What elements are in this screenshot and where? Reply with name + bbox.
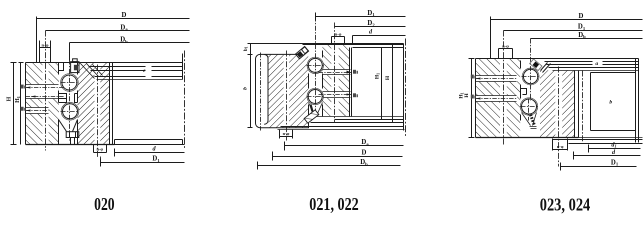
dim Db line bbox=[70, 43, 190, 61]
n-phi box bottom bbox=[280, 130, 293, 139]
loading plug top bbox=[71, 62, 79, 73]
inner bolt centreline bbox=[503, 31, 505, 145]
dim D1 bottom bbox=[561, 163, 637, 171]
raceway white gap bbox=[59, 63, 78, 144]
dim Da line bbox=[46, 30, 190, 32]
bore groove white bands bbox=[26, 85, 59, 99]
inner ring bore double edge bbox=[350, 48, 352, 117]
lower closing wedge bbox=[59, 120, 78, 132]
dim d top bbox=[353, 36, 406, 44]
inner ring outline bbox=[26, 63, 59, 145]
bottom bands right bbox=[579, 137, 643, 139]
H dim verticals right bbox=[382, 45, 393, 123]
bore arrow row 1 bbox=[21, 85, 26, 89]
tilted plug top bbox=[530, 59, 542, 71]
svg-text:b: b bbox=[609, 100, 612, 106]
outer bolt centreline bbox=[558, 67, 560, 167]
dim D1 line bbox=[101, 159, 185, 167]
lower ball bbox=[522, 99, 537, 114]
dim D line bbox=[37, 17, 190, 63]
outer ring raceway edge bbox=[308, 74, 310, 128]
dim D1 top bbox=[316, 13, 406, 21]
H1 dim line bbox=[19, 63, 24, 145]
outer bolt centreline bbox=[286, 51, 288, 141]
n-phi box top bbox=[40, 41, 51, 63]
svg-text:H: H bbox=[464, 93, 470, 98]
svg-text:n-φ: n-φ bbox=[557, 144, 564, 149]
lower ball bbox=[63, 104, 78, 119]
outer ring relief centreline bbox=[260, 53, 262, 131]
tilted plug top left bbox=[295, 46, 308, 58]
dim D2 top bbox=[335, 26, 406, 28]
dim Da bottom bbox=[285, 142, 404, 151]
n-phi box bottom bbox=[553, 139, 568, 151]
svg-text:021, 022: 021, 022 bbox=[309, 194, 359, 214]
top edge and band bbox=[476, 58, 639, 60]
outer ring bolt hole white band bbox=[555, 70, 562, 137]
outer ring relief contour bbox=[264, 55, 268, 125]
svg-text:n-φ: n-φ bbox=[335, 32, 342, 37]
svg-text:H1: H1 bbox=[15, 96, 21, 103]
ball column centreline bbox=[69, 60, 71, 141]
ball crosses bbox=[307, 66, 324, 97]
bore arrow row 2 bbox=[26, 96, 65, 98]
outer ring bolt hole white band bbox=[284, 54, 290, 127]
n-phi box top bbox=[499, 49, 513, 59]
svg-text:H: H bbox=[7, 96, 13, 101]
outer ring hatched block bbox=[268, 54, 308, 127]
outer ring edges bbox=[575, 71, 579, 138]
left dim vertical bbox=[248, 44, 303, 128]
inner bolt centreline bbox=[334, 23, 336, 123]
outer ring edge white gap bbox=[574, 70, 578, 137]
upper ball bbox=[62, 75, 77, 90]
bore arrow row 3 bbox=[21, 107, 26, 111]
bottom band lines bbox=[335, 119, 404, 121]
body top edge bbox=[26, 62, 183, 64]
outer bolt centreline bbox=[98, 65, 101, 163]
svg-text:H: H bbox=[385, 75, 391, 80]
inner ring flange lower line bbox=[353, 47, 404, 49]
upper ball bbox=[523, 69, 537, 83]
pitch centreline bbox=[582, 71, 584, 143]
axis centreline bbox=[405, 39, 407, 137]
spacer between rows bbox=[59, 94, 67, 103]
bore groove white bands bbox=[476, 76, 517, 82]
bore groove white bands bbox=[323, 69, 351, 75]
body bottom edge bbox=[476, 137, 579, 139]
H dim line bbox=[469, 59, 475, 138]
dim D bottom bbox=[273, 152, 403, 161]
dim Db bottom bbox=[258, 162, 401, 170]
outer ring bolt hole white band bbox=[95, 63, 101, 145]
right edge double vertical bbox=[636, 59, 639, 143]
bottom band bbox=[115, 140, 183, 145]
inner ring flange top thick edge bbox=[303, 44, 404, 45]
svg-text:n-φ: n-φ bbox=[502, 43, 509, 48]
svg-text:n-φ: n-φ bbox=[283, 131, 290, 136]
svg-text:D: D bbox=[579, 13, 584, 20]
svg-text:b1: b1 bbox=[244, 46, 249, 51]
n-phi box top bbox=[332, 37, 345, 44]
groove edges bbox=[323, 70, 351, 98]
svg-text:D: D bbox=[362, 149, 367, 156]
inner ring bottom edge bbox=[311, 116, 404, 118]
raceway bites bbox=[307, 57, 323, 73]
dim d bottom bbox=[574, 152, 641, 160]
lower ball bbox=[308, 90, 322, 104]
n-phi box bottom bbox=[94, 145, 107, 153]
inner ring hatched block bbox=[25, 63, 59, 145]
body bottom edge bbox=[26, 144, 115, 146]
ball column centreline bbox=[315, 17, 317, 113]
loading plug bottom bbox=[66, 132, 79, 138]
H dim line bbox=[11, 63, 17, 145]
band right edge bbox=[182, 54, 184, 80]
svg-text:020: 020 bbox=[94, 194, 115, 214]
bore arrow row 1 bbox=[471, 75, 476, 79]
svg-text:b: b bbox=[243, 87, 249, 90]
svg-text:D: D bbox=[122, 12, 127, 19]
outer ring hatched block bbox=[540, 70, 578, 137]
spacer between rows bbox=[521, 89, 527, 95]
tilted plug bottom bbox=[522, 113, 537, 126]
inner ring bolt hole white band bbox=[42, 63, 48, 145]
ball crosses bbox=[521, 77, 540, 107]
inner ring left edge bbox=[322, 51, 324, 117]
raceway white gap bbox=[520, 59, 540, 137]
inner ring outline bbox=[476, 59, 521, 138]
right edge solid bbox=[403, 44, 405, 131]
dim D top bbox=[491, 17, 643, 59]
inner ring bolt hole white band bbox=[331, 45, 338, 117]
band slope hatch bbox=[81, 64, 103, 79]
inner ring hatched block bbox=[476, 59, 521, 138]
groove edges bbox=[26, 85, 59, 114]
bore arrow row 2 bbox=[471, 95, 476, 99]
svg-text:n-φ: n-φ bbox=[42, 42, 49, 47]
ball centre crosses bbox=[61, 83, 79, 112]
top band lines bbox=[89, 66, 183, 68]
raceway bites bbox=[61, 74, 79, 92]
plug slope lines bbox=[541, 63, 551, 73]
seal step top bbox=[59, 63, 64, 71]
raceway bites bbox=[522, 68, 539, 85]
inner ring bolt hole white band bbox=[500, 59, 507, 138]
dim d1 bottom bbox=[589, 145, 641, 153]
outer ring outline bbox=[78, 63, 113, 145]
axis centreline bbox=[184, 51, 186, 149]
tilted plug bottom bbox=[309, 103, 323, 114]
bore arrow row 2 bbox=[319, 94, 352, 96]
ball column centreline bbox=[529, 39, 531, 121]
raceway white gap bbox=[308, 45, 322, 116]
bore arrow row 1 bbox=[319, 72, 352, 74]
svg-text:n-φ: n-φ bbox=[96, 146, 103, 151]
outer ring outline rounded left bbox=[256, 54, 310, 127]
outer ring hatched block bbox=[78, 63, 110, 145]
dim Db top bbox=[531, 38, 643, 40]
groove edges bbox=[476, 76, 517, 102]
dim d line bbox=[115, 149, 185, 157]
svg-text:a: a bbox=[595, 61, 598, 67]
inner ring hatched block bbox=[322, 45, 349, 117]
right mounting rectangle bbox=[591, 73, 636, 131]
svg-text:023, 024: 023, 024 bbox=[540, 194, 591, 214]
dim D1 top bbox=[504, 30, 643, 32]
upper ball bbox=[308, 58, 322, 72]
inner bolt centreline bbox=[45, 31, 47, 151]
